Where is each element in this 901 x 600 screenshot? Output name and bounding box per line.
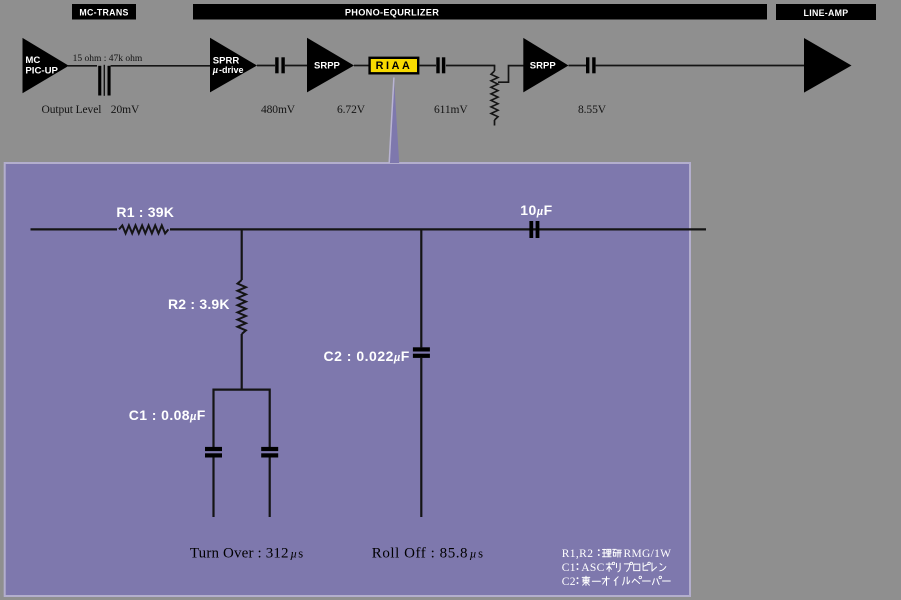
wire SRPP2 to C-coupling3 (569, 65, 587, 67)
svg-text:µ: µ (212, 65, 218, 75)
RIAA detail panel (5, 163, 690, 596)
svg-text:C1: C1 (562, 562, 576, 574)
svg-text:10µF: 10µF (520, 202, 552, 218)
svg-text:PIC-UP: PIC-UP (25, 65, 58, 76)
resistor R2 (168, 280, 246, 334)
capacitor C1 (two parallel sections) (129, 407, 278, 517)
resistor volume pot (491, 66, 498, 126)
svg-text:15 ohm : 47k ohm: 15 ohm : 47k ohm (73, 54, 143, 64)
wire wiper tap to SRPP2 (498, 66, 524, 83)
svg-text:LINE-AMP: LINE-AMP (804, 8, 849, 18)
capacitor coupling 2 (436, 57, 445, 73)
wire C1 to SRPP1 (285, 65, 308, 67)
amplifier SRPP 1 (307, 38, 354, 93)
svg-text:ASC: ASC (581, 562, 604, 574)
note parts list line 1: R1,R2:RIKEN RMG/1W (562, 548, 672, 560)
svg-text:611mV: 611mV (434, 104, 468, 116)
svg-text:480mV: 480mV (261, 104, 296, 116)
wire SRPP1 to RIAA (354, 65, 369, 67)
note parts list line 2: C1:ASC polypropylene (562, 562, 666, 574)
amplifier LINE-AMP (804, 38, 852, 93)
wire SPRR to C-coupling1 (257, 65, 275, 67)
svg-text:SRPP: SRPP (530, 61, 557, 72)
capacitor coupling 3 (586, 57, 596, 73)
note parts list line 3: C2:Toichi oil paper (562, 576, 671, 588)
svg-text:C2: C2 (562, 576, 576, 588)
callout pointer from RIAA block to panel (389, 77, 400, 163)
amplifier SRPP 2 (523, 38, 568, 93)
wire R2 down to C1 split (241, 334, 243, 391)
svg-text:RMG/1W: RMG/1W (624, 548, 672, 560)
wire MC tip to transformer (68, 65, 97, 67)
svg-text:Turn Over : 312µs: Turn Over : 312µs (190, 546, 303, 562)
wire transformer to SPRR (111, 65, 211, 67)
block RIAA (370, 58, 419, 74)
svg-text:-drive: -drive (219, 65, 244, 75)
svg-text:SRPP: SRPP (314, 61, 341, 72)
svg-text:R1,R2: R1,R2 (562, 548, 594, 560)
svg-text:R1 : 39K: R1 : 39K (116, 204, 174, 220)
svg-text:8.55V: 8.55V (578, 104, 607, 116)
wire junction down to R2 (241, 229, 243, 280)
label bar MC-TRANS (72, 4, 136, 20)
svg-text:PHONO-EQURLIZER: PHONO-EQURLIZER (345, 8, 439, 18)
transformer T1 (98, 65, 110, 96)
amplifier SPRR u-drive (210, 38, 257, 93)
wire RIAA to C-coupling2 (420, 65, 437, 67)
wire C3 to line amp (596, 65, 804, 67)
svg-text:MC-TRANS: MC-TRANS (79, 8, 128, 18)
capacitor C2 branch (324, 229, 430, 517)
svg-text:Output Level: Output Level (42, 104, 102, 116)
resistor R1 (116, 204, 174, 235)
svg-text:Roll Off : 85.8µs: Roll Off : 85.8µs (372, 546, 484, 562)
svg-text:6.72V: 6.72V (337, 104, 366, 116)
amplifier MC PIC-UP (23, 38, 69, 93)
capacitor 10uF on top wire (520, 202, 552, 238)
svg-text:20mV: 20mV (111, 104, 140, 116)
panel top wire (31, 228, 707, 230)
capacitor coupling 1 (275, 57, 285, 73)
svg-text:RIAA: RIAA (376, 60, 413, 72)
node C1 split bar (214, 390, 270, 448)
svg-text:R2 : 3.9K: R2 : 3.9K (168, 296, 230, 312)
wire C2 to volume pot (446, 65, 495, 67)
label bar PHONO-EQURLIZER (193, 4, 767, 20)
label bar LINE-AMP (776, 4, 876, 20)
